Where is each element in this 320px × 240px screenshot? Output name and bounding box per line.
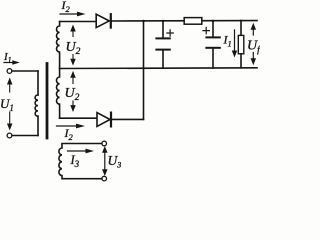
wire secondary top (60, 21, 97, 23)
resistor R filter (184, 18, 202, 25)
label I2 bottom (64, 126, 74, 142)
terminal third top (102, 141, 107, 146)
wire D2 output (111, 118, 144, 120)
wire primary right lower (37, 116, 39, 135)
svg-text:U3: U3 (108, 153, 122, 170)
label I1 (3, 51, 12, 65)
plus sign C1 (167, 30, 173, 36)
junction dot riser top (142, 20, 144, 22)
label I2 top (61, 0, 71, 14)
arrow U2 upper down (72, 55, 74, 60)
winding L3 third (59, 144, 102, 179)
label I3 (70, 153, 80, 169)
arrow I1 (4, 62, 13, 64)
wire primary right upper (37, 71, 39, 95)
resistor RL load (238, 21, 244, 68)
svg-text:I2: I2 (61, 0, 71, 14)
primary terminal top (7, 69, 12, 74)
svg-text:I1: I1 (223, 33, 232, 49)
arrow I2 top (60, 13, 78, 15)
svg-text:I2: I2 (64, 126, 74, 142)
arrow U2 upper up (72, 31, 74, 37)
svg-text:U2: U2 (65, 86, 80, 103)
label U3 (108, 153, 122, 170)
arrow U2 lower up (72, 78, 74, 84)
diode D1 (96, 14, 111, 27)
wire primary bottom (12, 135, 38, 137)
arrow U1 down (9, 112, 11, 124)
label IL (223, 33, 232, 49)
arrow U1 up (9, 84, 11, 92)
terminal third bottom (102, 176, 107, 181)
arrow U3 double (102, 146, 108, 176)
arrow IL (234, 30, 236, 51)
wire secondary bottom (60, 117, 97, 119)
label U2 lower (65, 86, 80, 103)
arrow Uf down (252, 53, 254, 59)
arrow I2 bottom (57, 125, 78, 127)
arrow I3 (68, 150, 87, 152)
winding L1 primary coil (35, 95, 38, 116)
capacitor C1 (156, 21, 169, 68)
junction dot load top (240, 20, 242, 22)
winding lower secondary (56, 69, 59, 119)
wire center tap / bottom rail (60, 67, 257, 70)
wire top rail (111, 20, 257, 22)
svg-text:I3: I3 (70, 153, 80, 169)
junction dot C1 top (162, 20, 164, 22)
label U1 (0, 96, 14, 113)
svg-text:U1: U1 (0, 96, 14, 113)
primary terminal bottom (7, 133, 12, 138)
wire riser D2 to top rail (143, 21, 145, 119)
winding upper secondary (57, 22, 60, 69)
wire primary top (12, 70, 38, 72)
arrow Uf up (252, 30, 254, 36)
junction dot C2 top (212, 20, 215, 23)
plus sign C2 (203, 27, 209, 33)
label Uf (247, 39, 261, 56)
diode D2 (97, 113, 111, 127)
capacitor C2 (206, 21, 219, 68)
arrow U2 lower down (72, 101, 74, 106)
transformer core (46, 64, 49, 139)
label U2 upper (66, 40, 81, 57)
